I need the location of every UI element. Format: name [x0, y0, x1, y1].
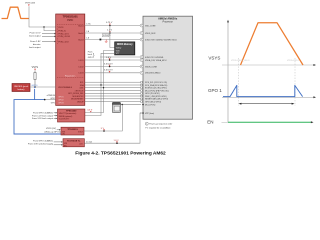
svg-text:MCU_PORz: MCU_PORz: [145, 104, 155, 106]
timing chart axis: [227, 20, 229, 123]
svg-text:0.6 mA: 0.6 mA: [86, 140, 92, 143]
svg-text:3.3/1.8 V: 3.3/1.8 V: [104, 70, 113, 72]
net flag 5V load switch: [101, 128, 105, 131]
svg-text:PMIC_LPM (STBY GPIO): PMIC_LPM (STBY GPIO): [145, 96, 167, 98]
svg-text:PVIN_LDO1: PVIN_LDO1: [58, 33, 68, 35]
junction Buck2 rail: [109, 32, 111, 34]
svg-text:PMIC: PMIC: [67, 19, 73, 22]
wire VDDS_DDR row: [100, 56, 140, 58]
net flag 0.6V VTT: [88, 110, 93, 113]
GPO stub labels: [47, 95, 56, 104]
svg-text:TLV75618 TL: TLV75618 TL: [67, 140, 81, 142]
arrows into VTT regulator: [54, 112, 58, 119]
svg-text:PVIN_LDO2: PVIN_LDO2: [58, 41, 68, 43]
wire LDO1 rail: [85, 59, 141, 61]
U2 pin labels: [145, 25, 177, 115]
svg-text:I2C0_SDA (I2C0 SDA OD): I2C0_SDA (I2C0 SDA OD): [145, 84, 168, 87]
GPO1 baseline: [222, 96, 316, 98]
I2C and control wires: [85, 82, 142, 101]
wire DDR VDD from VTT regulator: [85, 51, 115, 113]
svg-text:button): button): [18, 88, 25, 91]
svg-text:SCL: SCL: [80, 82, 84, 84]
svg-text:WKUP/ENABLE: WKUP/ENABLE: [58, 86, 72, 89]
svg-text:VDDS_DDR: VDDS_DDR: [145, 33, 156, 35]
resistor R1 pull-up: [34, 71, 36, 88]
svg-text:VDDQ: VDDQ: [116, 47, 122, 49]
GPO1 waveform blue: [223, 85, 303, 96]
U2 pin squares (digital): [141, 81, 143, 102]
svg-text:VSYS (5V): VSYS (5V): [25, 3, 35, 5]
junction LDO2: [109, 66, 111, 68]
svg-text:VLDOIN VTT: VLDOIN VTT: [59, 119, 70, 121]
net flag 0.75V: [106, 22, 113, 25]
svg-text:Power-up sequence order: Power-up sequence order: [149, 124, 172, 126]
svg-text:VSYS: VSYS: [58, 27, 64, 29]
wire VSYS: [29, 6, 56, 27]
wire Buck2 rail: [85, 32, 141, 34]
junction VSYS/PVIN: [43, 26, 45, 28]
svg-text:Buck1: Buck1: [78, 25, 83, 27]
svg-text:GPO3: GPO3: [58, 102, 63, 104]
wire PVIN_3x: [44, 27, 56, 31]
svg-text:VSYS>VSYS_UVLO: VSYS>VSYS_UVLO: [231, 59, 250, 62]
dashed marker left: [237, 58, 239, 106]
dashed marker right: [294, 58, 296, 106]
wire PVIN_LDO34 with arrow: [42, 36, 56, 38]
vertical rail to DDR VDDQ: [110, 26, 115, 48]
EN tick: [222, 121, 229, 123]
junction WKUP: [34, 86, 36, 88]
wire PVIN_LDO1 with arrow: [42, 33, 56, 35]
svg-text:VPP (fuse): VPP (fuse): [145, 113, 154, 115]
svg-text:LDO2: LDO2: [79, 66, 84, 68]
push button box SW1: [12, 84, 30, 92]
svg-text:GPIO: GPIO: [50, 98, 55, 100]
junction load switch: [103, 130, 105, 132]
svg-text:5: 5: [141, 60, 142, 62]
svg-text:AM62x/ AM62Ax: AM62x/ AM62Ax: [158, 18, 178, 21]
PMIC U1 TPS6521901: [56, 14, 85, 105]
reset button icon: [112, 102, 120, 112]
svg-text:Regulators: Regulators: [65, 74, 76, 77]
junction processor VPP: [142, 112, 144, 114]
svg-text:From 1.2V buck output: From 1.2V buck output: [32, 114, 53, 117]
svg-text:4: 4: [141, 57, 142, 59]
junction Buck1 rail: [109, 25, 111, 27]
net flag 3.3/1.8V LDO2: [104, 63, 113, 66]
wire Buck1 rail: [85, 25, 141, 27]
svg-text:GPO: GPO: [51, 102, 56, 104]
EN line green: [228, 121, 314, 123]
annotation From 1.8V discrete buck output: [29, 40, 41, 49]
svg-text:VDDR_CORE: VDDR_CORE: [145, 66, 158, 68]
svg-text:VIN VTT (termination): VIN VTT (termination): [59, 112, 77, 115]
svg-text:VSYS: VSYS: [208, 56, 220, 61]
wire PVIN_LDO2 with arrow: [42, 41, 56, 43]
svg-text:GPIO (MCU GPIO): GPIO (MCU GPIO): [145, 101, 161, 103]
svg-text:(Wake-up GPO1): (Wake-up GPO1): [45, 132, 61, 134]
svg-text:Figure 4-2. TPS6521901 Powerin: Figure 4-2. TPS6521901 Powering AM62: [75, 151, 166, 157]
svg-text:From 3.3V buck output: From 3.3V buck output: [32, 117, 53, 120]
svg-text:From 1.8V: From 1.8V: [30, 40, 41, 43]
svg-text:RESETSTATz (MCU GPIO): RESETSTATz (MCU GPIO): [145, 98, 169, 101]
svg-text:LDO: LDO: [79, 143, 83, 145]
boxed label 0.85/0.75V: [102, 34, 110, 37]
svg-text:1: 1: [141, 25, 142, 27]
junction SCL pull-up: [100, 84, 101, 85]
svg-text:VSYS (5V): VSYS (5V): [46, 128, 56, 130]
wire Buck3 rail: [85, 39, 141, 41]
junction processor MCU_PORz: [142, 104, 144, 106]
svg-text:VSYS: VSYS: [32, 66, 39, 69]
svg-text:VDD: VDD: [116, 50, 121, 52]
svg-text:EN: EN: [207, 119, 213, 124]
svg-text:ON/OFF (push: ON/OFF (push: [14, 86, 29, 88]
net label VSYS (5V) top: [25, 3, 35, 7]
svg-text:GPO_MODE_SEL: GPO_MODE_SEL: [68, 93, 84, 95]
svg-text:GPO 1: GPO 1: [208, 88, 222, 93]
svg-text:Buck3: Buck3: [78, 39, 83, 41]
svg-text:P1: required for secondBoot: P1: required for secondBoot: [145, 127, 170, 130]
wire MCU_PORz: [121, 104, 141, 106]
svg-text:discrete: discrete: [33, 43, 41, 46]
svg-text:GPO2: GPO2: [58, 99, 63, 101]
svg-text:7: 7: [141, 72, 142, 74]
annotation inputs to VTT regulator: [32, 112, 54, 121]
svg-text:From 3.3 V: From 3.3 V: [30, 32, 41, 35]
processor U2 AM62: [143, 16, 193, 119]
U2 pin numbers: [141, 25, 142, 74]
inductor L1: [100, 39, 102, 41]
capacitor C1 red: [105, 40, 108, 43]
svg-text:0.85/0.75 V LVDDR4L: 0.85/0.75 V LVDDR4L: [145, 57, 164, 59]
svg-text:2: 2: [141, 33, 142, 35]
DDR memory U3: [115, 42, 135, 55]
load switch U6 TPS22919: [61, 127, 84, 135]
wire load switch output: [84, 105, 122, 132]
svg-text:GPIO (PG GPIO): GPIO (PG GPIO): [145, 93, 160, 95]
U2 pin circles: [140, 24, 143, 74]
net flag 1.1V: [107, 30, 113, 33]
svg-text:From 3.3V switched supply: From 3.3V switched supply: [28, 143, 54, 146]
svg-text:buck output: buck output: [29, 34, 41, 37]
wire VPP stub: [140, 112, 143, 114]
svg-text:Buck2: Buck2: [78, 33, 83, 35]
svg-text:MCU_PORz (PB PORz OD): MCU_PORz (PB PORz OD): [145, 90, 169, 92]
svg-text:6: 6: [141, 66, 142, 68]
svg-text:3: 3: [141, 39, 142, 41]
LDO U7 TLV75618: [63, 139, 84, 148]
junction MCU_PORz: [122, 104, 124, 106]
junction SDA pull-up: [103, 87, 104, 88]
svg-text:buck: buck: [88, 54, 92, 56]
svg-text:I2C0_SCL (I2C0 SCL OD): I2C0_SCL (I2C0 SCL OD): [145, 82, 167, 84]
svg-text:nWKUP: nWKUP: [77, 101, 84, 103]
svg-text:nPWRON: nPWRON: [47, 95, 56, 97]
annotation From buck GPIO: [88, 51, 95, 59]
U1 pin labels right: [68, 25, 84, 103]
svg-text:From GPIO of AM62x: From GPIO of AM62x: [33, 112, 54, 115]
net flag 1.8V VPP: [114, 140, 120, 143]
svg-text:MODE/RESET: MODE/RESET: [71, 99, 84, 101]
svg-text:LDO3: LDO3: [79, 73, 84, 75]
svg-text:DVDD3V3_MMC0: DVDD3V3_MMC0: [145, 73, 160, 75]
wire LDO3 rail: [85, 72, 141, 74]
svg-text:VDD_CORE: VDD_CORE: [145, 25, 156, 27]
svg-text:PVIN_3x: PVIN_3x: [58, 30, 66, 32]
arrows into LDO: [54, 141, 63, 146]
svg-text:REFIN (optional): REFIN (optional): [59, 115, 73, 118]
wire WKUP: [30, 86, 56, 88]
dimension arrow: [239, 103, 295, 105]
junction VPP: [116, 142, 118, 144]
wire LDO2 rail: [85, 66, 141, 68]
svg-text:0.85/0.75V LVDDR4L VDDSHV_MCU: 0.85/0.75V LVDDR4L VDDSHV_MCU: [145, 39, 177, 41]
svg-text:PVIN_LDO34: PVIN_LDO34: [58, 36, 69, 38]
svg-text:VSYS<UVLO: VSYS<UVLO: [287, 59, 299, 62]
svg-text:buck output: buck output: [29, 46, 41, 49]
VSYS input pulse waveform: [2, 7, 30, 18]
svg-text:TPS22919: TPS22919: [67, 129, 78, 131]
junction LDO1: [109, 59, 111, 61]
svg-text:EXTINTn (I2C IRQ GPIO): EXTINTn (I2C IRQ GPIO): [145, 88, 167, 90]
svg-text:nRSTOUT: nRSTOUT: [75, 90, 85, 92]
svg-text:VDDA_1V8, VDDA_MCU: VDDA_1V8, VDDA_MCU: [145, 59, 167, 62]
annotation inputs to LDO: [28, 139, 54, 145]
net flag 3.3/1.8V LDO3: [104, 70, 113, 73]
annotation VSYS into load switch: [45, 128, 61, 134]
svg-text:MODE/STBY: MODE/STBY: [72, 96, 84, 98]
VSYS baseline: [222, 64, 316, 66]
svg-text:From GPIO of AM62x: From GPIO of AM62x: [33, 139, 54, 142]
net label VSYS (pull-up): [32, 66, 39, 71]
svg-text:0.85/0.75: 0.85/0.75: [103, 35, 111, 37]
wire DDR VTT from VTT regulator: [85, 53, 115, 115]
net flag GPO1 blue: [32, 85, 39, 88]
svg-text:DDR4 Memory: DDR4 Memory: [117, 43, 133, 46]
wire VPP from LDO: [84, 113, 141, 143]
junction blue: [44, 99, 46, 101]
wire GPO2 stub: [45, 99, 56, 101]
annotation From 3.3V buck output: [29, 32, 41, 38]
svg-text:LDO1: LDO1: [79, 60, 84, 62]
note 1 power-up sequence: [145, 122, 172, 129]
svg-text:3.3/1.8 V: 3.3/1.8 V: [104, 63, 113, 65]
VTT regulator U5 TPS51200: [58, 109, 85, 122]
svg-text:Processor: Processor: [163, 22, 174, 24]
net flag 1.8V LDO1: [106, 57, 112, 60]
U1 pin labels left: [58, 27, 72, 89]
VSYS waveform orange: [241, 23, 304, 65]
wire wake-up GPIO (blue): [14, 100, 61, 134]
svg-text:GPO1: GPO1: [58, 96, 63, 98]
blue branch to net flag: [34, 89, 36, 100]
